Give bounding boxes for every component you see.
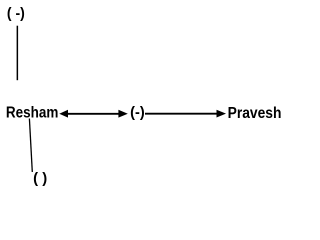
wire arrow (-) to Pravesh [145,110,226,118]
wire vertical from ( -) down [16,26,18,80]
wire double arrow Resham to (-) [59,110,128,118]
wire slanted from Resham down to ( ) [29,119,32,173]
svg-text:Resham: Resham [6,105,59,122]
svg-text:Pravesh: Pravesh [228,105,282,122]
svg-text:( ): ( ) [33,170,47,187]
svg-text:(-): (-) [130,104,145,121]
svg-text:( -): ( -) [7,5,25,22]
